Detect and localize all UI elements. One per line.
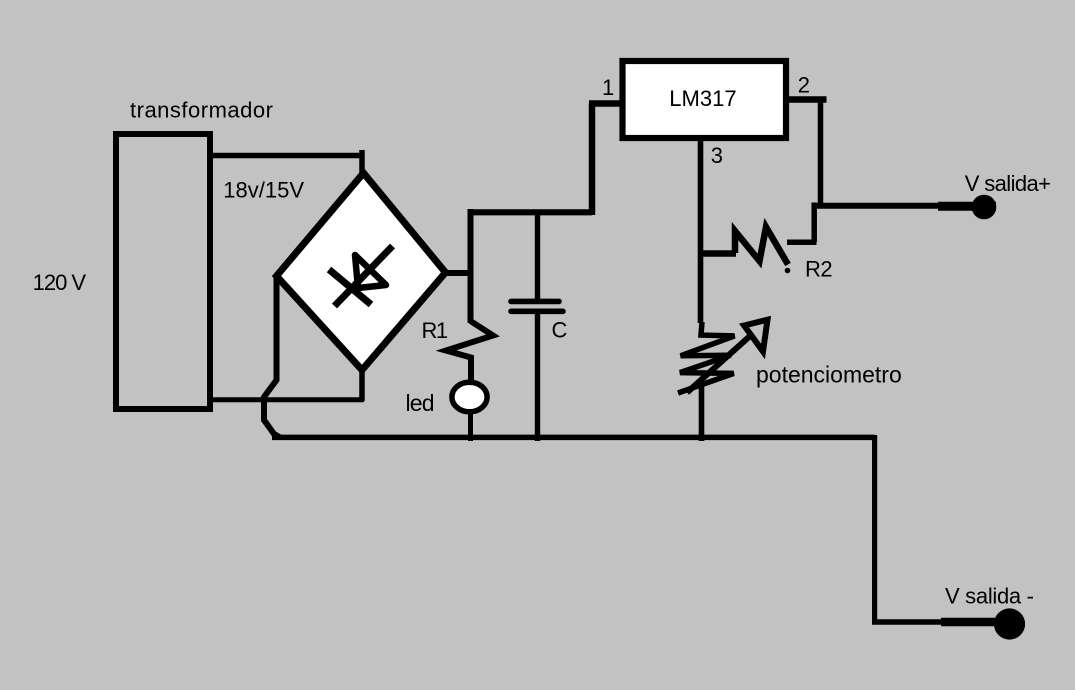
svg-text:R2: R2 <box>805 257 832 282</box>
svg-text:LM317: LM317 <box>669 86 736 111</box>
svg-text:120 V: 120 V <box>33 270 87 295</box>
svg-text:V salida+: V salida+ <box>965 171 1051 196</box>
svg-text:3: 3 <box>711 143 723 168</box>
svg-text:V salida -: V salida - <box>945 584 1034 609</box>
svg-text:led: led <box>406 390 434 416</box>
svg-text:potenciometro: potenciometro <box>756 362 902 388</box>
svg-text:transformador: transformador <box>130 98 273 123</box>
svg-text:1: 1 <box>602 75 614 100</box>
svg-text:C: C <box>552 318 568 343</box>
svg-text:18v/15V: 18v/15V <box>223 178 304 203</box>
svg-text:2: 2 <box>798 73 810 98</box>
svg-text:R1: R1 <box>422 318 448 343</box>
